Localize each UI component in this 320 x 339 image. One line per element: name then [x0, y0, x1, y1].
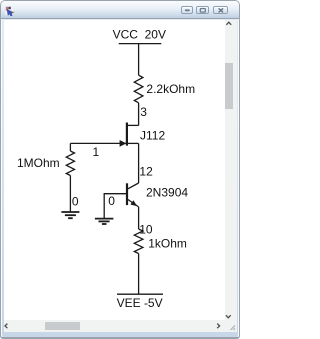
vertical scrollbar track: [225, 20, 237, 332]
up arrow: [226, 22, 231, 25]
wire emitter to R3: [138, 207, 140, 229]
gate wire from 1M node: [70, 142, 126, 144]
left arrow: [5, 324, 7, 329]
title bar icon: [4, 5, 16, 17]
BJT base wire: [104, 194, 126, 219]
svg-text:VCC 20V: VCC 20V: [113, 28, 166, 42]
wire R3 to VEE: [138, 254, 140, 295]
BJT collector slant: [128, 183, 139, 189]
minimize button: [181, 6, 194, 15]
svg-text:0: 0: [108, 194, 115, 208]
ground (left): [61, 212, 79, 218]
title bar: [1, 1, 239, 19]
horizontal scrollbar track: [4, 320, 225, 332]
svg-text:0: 0: [72, 195, 79, 209]
BJT emitter arrow: [130, 200, 137, 206]
wire JFET source to BJT collector: [138, 143, 140, 183]
size grip: [231, 326, 236, 331]
resistor R2 1MOhm: [66, 151, 74, 176]
svg-text:J112: J112: [140, 129, 165, 143]
BJT emitter slant: [128, 200, 139, 207]
wire R2 to ground: [69, 176, 71, 213]
restore button: [196, 6, 210, 15]
down arrow: [226, 315, 231, 318]
JFET drain lead: [127, 124, 138, 126]
wire VCC to R1: [138, 44, 140, 76]
resistor R1 2.2kOhm: [134, 75, 143, 103]
svg-text:1: 1: [93, 145, 100, 159]
1M top corner + stub: [69, 143, 71, 151]
close button: [213, 6, 229, 15]
svg-text:12: 12: [139, 164, 153, 178]
JFET gate arrow: [120, 140, 127, 147]
svg-text:3: 3: [140, 105, 147, 119]
horizontal thumb: [45, 322, 80, 330]
resistor R3 1kOhm: [134, 229, 143, 254]
svg-text:1MOhm: 1MOhm: [17, 156, 60, 170]
JFET source lead: [127, 142, 138, 144]
svg-text:2N3904: 2N3904: [146, 186, 188, 200]
VCC rail: [119, 43, 162, 45]
BJT base bar: [126, 183, 128, 205]
vertical thumb: [225, 63, 233, 109]
ground (mid, BJT base): [95, 219, 114, 224]
wire R1 to JFET drain: [138, 103, 140, 126]
svg-text:1kOhm: 1kOhm: [148, 237, 187, 251]
window frame: [0, 0, 240, 339]
svg-text:2.2kOhm: 2.2kOhm: [146, 82, 195, 96]
JFET channel bar: [126, 123, 128, 146]
client area: [4, 20, 225, 321]
VEE rail: [117, 293, 163, 295]
svg-text:VEE -5V: VEE -5V: [117, 296, 163, 310]
right arrow: [217, 324, 219, 329]
svg-text:10: 10: [139, 223, 153, 237]
scrollbar arrows + grip: [0, 0, 240, 339]
